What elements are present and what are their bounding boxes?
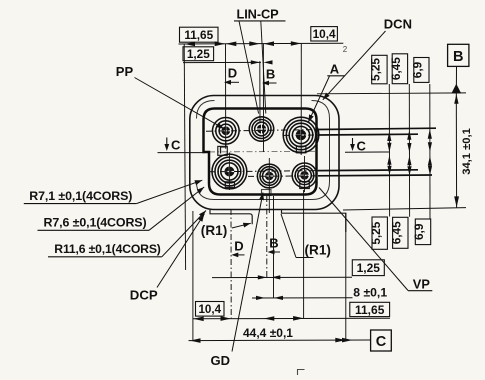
boxed dimension 1,25 top: [183, 47, 214, 61]
dimension line 6,45 vertical: [408, 84, 410, 217]
svg-text:B: B: [453, 49, 463, 65]
svg-text:10,4: 10,4: [313, 27, 336, 41]
svg-text:5,25: 5,25: [369, 221, 383, 244]
leader shelf R1 right: [296, 257, 314, 259]
row centre line bottom row inside part: [248, 175, 318, 178]
left bottom tab outline with R1 corner: [210, 210, 252, 224]
arrowheads on top dimension line: [185, 41, 302, 46]
svg-text:C: C: [357, 138, 367, 153]
leader DCN: [323, 31, 386, 100]
row centre line through hole A inside part: [283, 134, 318, 136]
svg-text:GD: GD: [211, 353, 231, 368]
vertical centre line hole DCP: [228, 153, 230, 191]
arrowheads bottom 10,4 11,65: [193, 316, 303, 321]
key slot rect under big hole DCP: [225, 182, 234, 188]
row centre line bottom row extended right: [318, 174, 432, 177]
section C mark right: [345, 138, 389, 152]
bottom extension line for 34,1: [343, 208, 466, 210]
svg-text:11,65: 11,65: [184, 28, 213, 42]
leader GD: [232, 193, 263, 352]
svg-text:D: D: [234, 239, 243, 254]
arrow D top: [224, 80, 239, 85]
dimension line 1,25 top: [183, 61, 261, 63]
svg-text:2: 2: [343, 45, 348, 54]
column line D through hole PP: [225, 44, 227, 149]
left extension line upper: [184, 44, 185, 271]
svg-text:B: B: [269, 236, 278, 251]
arrowheads 6,9 line: [428, 129, 432, 175]
leader PP: [135, 78, 225, 129]
dashed section line D below part: [230, 209, 232, 318]
arrowheads 1,25 top: [251, 60, 273, 64]
leader R1 right: [281, 214, 296, 258]
middle contour (corners, bottom and right): [197, 101, 330, 200]
leader LIN-CP line 2: [261, 21, 266, 114]
leader R11,6: [162, 211, 206, 257]
key slot rect under hole A: [296, 146, 306, 153]
arrowhead bottom of 34,1: [454, 196, 459, 207]
arrowheads 6,45 line: [407, 130, 411, 176]
svg-text:DCN: DCN: [384, 17, 412, 32]
svg-text:6,45: 6,45: [389, 221, 403, 244]
svg-text:8 ±0,1: 8 ±0,1: [353, 285, 387, 299]
underline R7,1: [24, 203, 137, 205]
svg-text:VP: VP: [413, 276, 431, 291]
boxed dimension 11,65 top: [180, 27, 219, 42]
svg-text:PP: PP: [116, 64, 134, 79]
cavity PP (top-left hole): [213, 118, 240, 145]
keying step under cavity PP: [221, 142, 226, 154]
right extension line of tab: [345, 213, 347, 341]
column line through hole VP extended down: [303, 190, 305, 318]
svg-text:R11,6 ±0,1(4CORS): R11,6 ±0,1(4CORS): [54, 242, 161, 256]
cavity A / DCN (top-right hole): [283, 117, 319, 153]
underline R7,6: [38, 229, 150, 231]
left extension line lower (part edge extended): [192, 211, 194, 340]
boxed dimension 6,9 bottom vertical: [415, 219, 430, 245]
underline A: [327, 75, 344, 77]
arrow B bottom: [268, 250, 281, 255]
underline LIN-CP: [234, 20, 286, 22]
dimension line 10,4 / 11,65 bottom: [193, 317, 390, 320]
right bottom tab outline: [282, 210, 346, 233]
datum B triangle: [451, 84, 461, 94]
svg-text:6,9: 6,9: [412, 223, 426, 240]
arrowheads 44,4: [190, 338, 353, 343]
svg-text:5,25: 5,25: [369, 58, 383, 81]
cavity LIN-CP (top-middle hole): [249, 117, 273, 141]
boxed dimension 6,45 bottom vertical: [393, 217, 408, 248]
vertical centre line hole GD: [268, 158, 270, 213]
svg-text:C: C: [376, 334, 387, 350]
dimension line 34,1 vertical: [455, 94, 457, 208]
boxed dimension 11,65 bottom: [350, 302, 390, 316]
datum box B: [448, 44, 469, 66]
dimension line 6,9 vertical: [429, 84, 431, 219]
arrowheads 8 dim: [256, 296, 283, 300]
svg-text:11,65: 11,65: [355, 303, 385, 317]
cavity GD (bottom-middle hole): [257, 164, 281, 188]
outer contour of grommet body: [190, 96, 339, 210]
underline R11,6: [48, 256, 162, 258]
svg-text:34,1 ±0,1: 34,1 ±0,1: [461, 128, 473, 175]
underline VP: [408, 290, 432, 292]
auxiliary line right of GD column: [273, 196, 275, 298]
dashed section line B below part: [266, 196, 268, 277]
row centre line top row extended right: [318, 128, 436, 129]
leader A: [308, 76, 329, 122]
cavity DCP (bottom-left large hole): [212, 154, 247, 189]
cavity VP (bottom-right hole): [292, 163, 317, 188]
arrow D bottom: [231, 253, 244, 258]
section plane C centre line inside part: [209, 150, 316, 153]
datum box C: [371, 330, 392, 351]
svg-text:R7,1 ±0,1(4CORS): R7,1 ±0,1(4CORS): [29, 189, 132, 203]
boxed dimension 6,9 top vertical: [414, 58, 429, 83]
svg-text:LIN-CP: LIN-CP: [237, 6, 280, 21]
arrowheads 1,25 bottom: [258, 275, 281, 279]
row centre line top row inside part: [206, 130, 318, 132]
dimension line 1,25 bottom: [212, 276, 352, 278]
leader R1 left: [232, 223, 251, 228]
svg-text:(R1): (R1): [201, 223, 227, 238]
arrowhead top of 34,1: [454, 94, 458, 104]
svg-text:6,45: 6,45: [389, 57, 403, 80]
leader R7,1: [136, 180, 202, 203]
svg-text:1,25: 1,25: [187, 47, 210, 61]
svg-text:(R1): (R1): [305, 243, 331, 258]
arrowheads 5,25 line: [387, 132, 391, 176]
leader LIN-CP line 1: [239, 21, 259, 114]
svg-text:44,4 ±0,1: 44,4 ±0,1: [243, 326, 293, 340]
svg-text:DCP: DCP: [130, 288, 158, 303]
dimension line 5,25 vertical: [388, 84, 390, 217]
row centre line hole DCP extended right: [318, 169, 418, 172]
key slot rect under hole PP: [218, 146, 228, 155]
svg-text:A: A: [330, 62, 340, 77]
key slot rect under hole GD: [262, 190, 272, 196]
arrow B top: [262, 81, 277, 86]
svg-text:1,25: 1,25: [357, 261, 381, 275]
vertical centre line hole VP: [304, 156, 306, 192]
leader R7,6: [149, 187, 204, 230]
svg-text:D: D: [228, 66, 237, 81]
dimension line 8 plusminus 0,1: [252, 297, 353, 299]
auxiliary column line 1,25 offset: [259, 61, 261, 122]
svg-text:6,9: 6,9: [411, 61, 425, 78]
connector from datum box B: [455, 67, 457, 86]
column line through hole A: [300, 44, 302, 156]
small reference mark bottom: [298, 370, 305, 376]
boxed dimension 10,4 top: [311, 27, 338, 41]
svg-text:B: B: [266, 67, 275, 82]
boxed dimension 5,25 bottom vertical: [372, 217, 387, 249]
row centre line through hole DCP inside part: [209, 171, 318, 172]
datum B extension line top: [317, 92, 466, 95]
boxed dimension 1,25 bottom: [352, 260, 384, 276]
key slot rect under hole VP: [300, 182, 310, 189]
column line B through hole LIN-CP: [262, 44, 264, 153]
svg-text:R7,6 ±0,1(4CORS): R7,6 ±0,1(4CORS): [44, 215, 147, 229]
row centre line hole A extended right: [318, 133, 418, 136]
inner thick contour with left jog: [204, 109, 317, 195]
dimension line 11,65 / 10,4 top: [179, 42, 344, 45]
section C mark left: [158, 138, 206, 153]
boxed dimension 6,45 top vertical: [392, 54, 407, 84]
boxed dimension 5,25 top vertical: [372, 55, 387, 84]
leader DCP: [157, 214, 204, 288]
dimension line 44,4: [189, 339, 371, 342]
svg-text:C: C: [171, 138, 181, 153]
leader VP: [319, 188, 408, 291]
boxed dimension 10,4 bottom: [196, 302, 225, 317]
svg-text:10,4: 10,4: [198, 303, 221, 316]
